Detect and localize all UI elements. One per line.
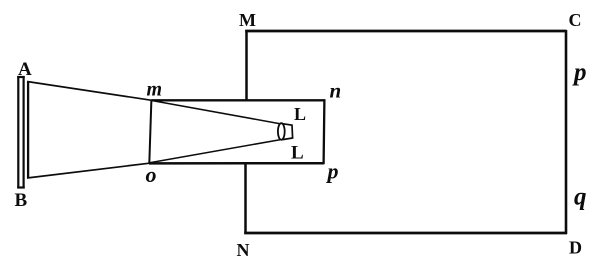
svg-text:n: n: [330, 79, 342, 103]
object plate AB: [17, 76, 28, 189]
inner tube box m n p o: [149, 99, 325, 164]
svg-text:M: M: [239, 10, 256, 30]
svg-text:L: L: [294, 104, 306, 124]
svg-text:A: A: [18, 59, 32, 80]
outer box: right edge C to D: [565, 30, 568, 234]
svg-text:m: m: [147, 79, 163, 101]
svg-text:B: B: [15, 190, 28, 211]
svg-text:C: C: [569, 10, 582, 30]
svg-text:o: o: [146, 162, 157, 187]
lens mount: [283, 124, 293, 140]
svg-text:p: p: [326, 159, 339, 184]
svg-text:N: N: [237, 240, 250, 260]
ray m to lens: [152, 101, 280, 124]
outer box: bottom edge N to D: [244, 232, 567, 235]
svg-text:D: D: [569, 238, 582, 258]
outer box: left edge lower segment: [244, 163, 247, 234]
outer box: left edge upper segment: [245, 30, 248, 101]
ray A to m: [27, 82, 152, 101]
svg-text:q: q: [574, 184, 587, 211]
svg-text:L: L: [291, 143, 304, 164]
lens L ellipse: [278, 123, 285, 140]
ray o to lens: [150, 140, 280, 163]
svg-text:p: p: [572, 59, 587, 86]
ray B to o: [27, 163, 150, 178]
outer box: top edge M to C: [245, 30, 566, 33]
